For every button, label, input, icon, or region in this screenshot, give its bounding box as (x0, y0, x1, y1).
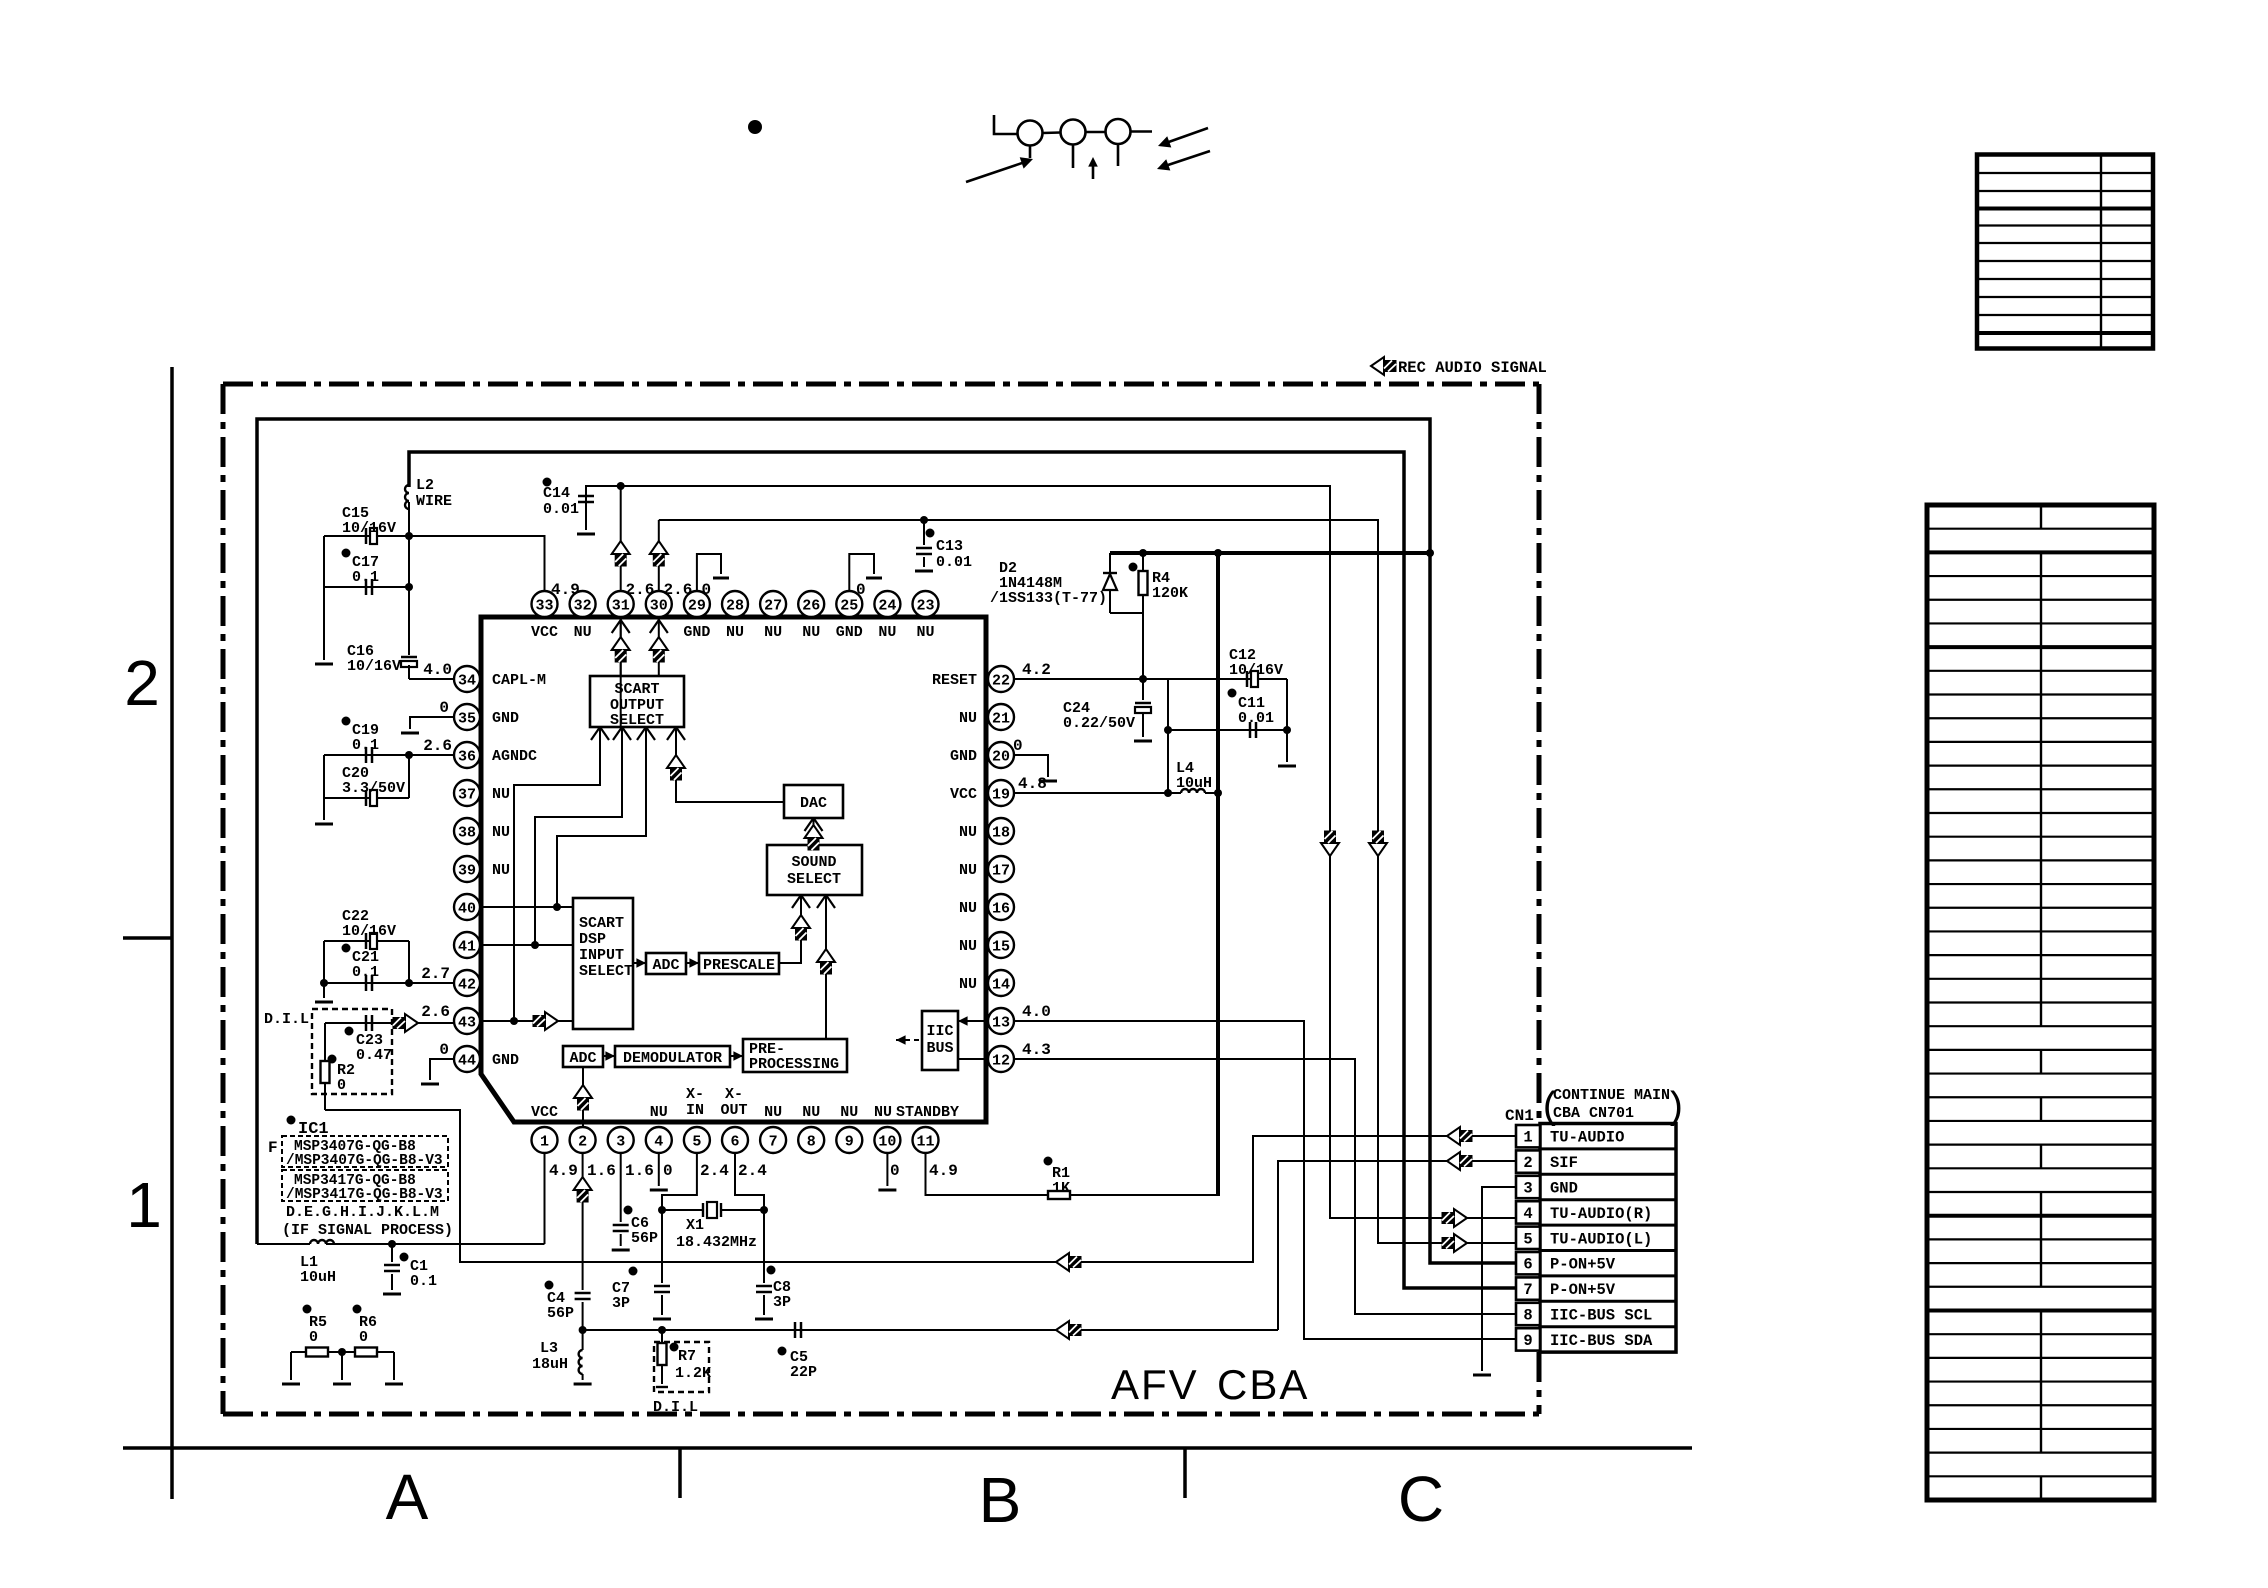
svg-text:43: 43 (458, 1015, 476, 1032)
svg-text:IIC-BUS SDA: IIC-BUS SDA (1550, 1332, 1653, 1350)
svg-text:0.01: 0.01 (543, 501, 579, 518)
svg-text:35: 35 (458, 711, 476, 728)
svg-text:2.6: 2.6 (664, 581, 693, 599)
svg-text:ADC: ADC (652, 957, 679, 974)
svg-text:DSP: DSP (579, 931, 606, 948)
svg-text:BUS: BUS (926, 1040, 953, 1057)
svg-text:F: F (268, 1139, 278, 1157)
svg-text:2.6: 2.6 (421, 1003, 450, 1021)
svg-text:OUT: OUT (720, 1102, 747, 1119)
svg-text:36: 36 (458, 749, 476, 766)
svg-text:9: 9 (1523, 1332, 1532, 1350)
svg-text:24: 24 (878, 598, 896, 615)
svg-text:NU: NU (574, 624, 592, 641)
svg-text:PRESCALE: PRESCALE (703, 957, 775, 974)
svg-text:3.3/50V: 3.3/50V (342, 780, 405, 797)
svg-text:7: 7 (769, 1134, 778, 1151)
svg-text:P-ON+5V: P-ON+5V (1550, 1256, 1616, 1274)
svg-text:1: 1 (540, 1134, 549, 1151)
svg-text:1.2K: 1.2K (675, 1365, 711, 1382)
svg-text:10/16V: 10/16V (1229, 662, 1283, 679)
svg-text:23: 23 (916, 598, 934, 615)
svg-text:38: 38 (458, 825, 476, 842)
svg-text:): ) (1664, 1087, 1687, 1130)
svg-text:56P: 56P (547, 1305, 574, 1322)
svg-text:WIRE: WIRE (416, 493, 452, 510)
svg-text:VCC: VCC (531, 1104, 558, 1121)
svg-text:1: 1 (1523, 1129, 1532, 1147)
svg-text:R7: R7 (678, 1348, 696, 1365)
svg-text:33: 33 (535, 598, 553, 615)
svg-text:CAPL-M: CAPL-M (492, 672, 546, 689)
svg-text:16: 16 (992, 901, 1010, 918)
svg-text:10/16V: 10/16V (347, 658, 401, 675)
svg-text:RESET: RESET (932, 672, 977, 689)
svg-text:SELECT: SELECT (787, 871, 841, 888)
svg-text:12: 12 (992, 1053, 1010, 1070)
svg-text:0: 0 (439, 699, 449, 717)
svg-text:B: B (979, 1464, 1022, 1536)
svg-text:0: 0 (702, 581, 712, 599)
svg-text:4.0: 4.0 (423, 661, 452, 679)
svg-text:15: 15 (992, 939, 1010, 956)
svg-text:/MSP3407G-QG-B8-V3: /MSP3407G-QG-B8-V3 (286, 1153, 443, 1169)
svg-text:10/16V: 10/16V (342, 923, 396, 940)
svg-text:NU: NU (492, 824, 510, 841)
svg-text:X-: X- (686, 1086, 704, 1103)
svg-text:X-: X- (725, 1086, 743, 1103)
svg-text:2: 2 (1523, 1154, 1532, 1172)
svg-text:32: 32 (574, 598, 592, 615)
svg-text:SELECT: SELECT (610, 712, 664, 729)
svg-text:18uH: 18uH (532, 1356, 568, 1373)
svg-text:4: 4 (1523, 1205, 1532, 1223)
svg-text:NU: NU (959, 976, 977, 993)
svg-text:REC AUDIO SIGNAL: REC AUDIO SIGNAL (1398, 359, 1547, 377)
svg-text:C: C (1398, 1463, 1444, 1535)
svg-text:44: 44 (458, 1053, 476, 1070)
svg-text:39: 39 (458, 863, 476, 880)
svg-text:2.7: 2.7 (421, 965, 450, 983)
svg-text:D.E.G.H.I.J.K.L.M: D.E.G.H.I.J.K.L.M (286, 1204, 439, 1221)
svg-text:30: 30 (650, 598, 668, 615)
svg-text:18.432MHz: 18.432MHz (676, 1234, 757, 1251)
svg-text:0: 0 (1013, 737, 1023, 755)
svg-text:0.47: 0.47 (356, 1047, 392, 1064)
svg-text:14: 14 (992, 977, 1010, 994)
svg-text:10uH: 10uH (1176, 775, 1212, 792)
svg-text:NU: NU (726, 624, 744, 641)
svg-text:L2: L2 (416, 477, 434, 494)
svg-text:IN: IN (686, 1102, 704, 1119)
svg-text:120K: 120K (1152, 585, 1188, 602)
svg-text:TU-AUDIO(R): TU-AUDIO(R) (1550, 1205, 1652, 1223)
svg-text:PROCESSING: PROCESSING (749, 1056, 839, 1073)
svg-text:STANDBY: STANDBY (896, 1104, 959, 1121)
svg-text:NU: NU (959, 710, 977, 727)
svg-text:6: 6 (1523, 1256, 1532, 1274)
svg-text:TU-AUDIO: TU-AUDIO (1550, 1129, 1624, 1147)
svg-text:0.1: 0.1 (352, 737, 379, 754)
svg-text:/1SS133(T-77): /1SS133(T-77) (990, 590, 1107, 607)
svg-text:GND: GND (836, 624, 863, 641)
svg-text:(IF SIGNAL PROCESS): (IF SIGNAL PROCESS) (282, 1222, 453, 1239)
svg-text:INPUT: INPUT (579, 947, 624, 964)
svg-text:5: 5 (692, 1134, 701, 1151)
svg-text:29: 29 (688, 598, 706, 615)
svg-text:4.2: 4.2 (1022, 661, 1051, 679)
svg-text:28: 28 (726, 598, 744, 615)
svg-text:NU: NU (802, 1104, 820, 1121)
svg-text:17: 17 (992, 863, 1010, 880)
svg-text:0: 0 (890, 1162, 900, 1180)
svg-text:22: 22 (992, 673, 1010, 690)
svg-text:2.6: 2.6 (626, 581, 655, 599)
svg-text:L3: L3 (540, 1340, 558, 1357)
svg-text:NU: NU (492, 862, 510, 879)
svg-text:NU: NU (874, 1104, 892, 1121)
svg-text:ADC: ADC (569, 1050, 596, 1067)
svg-text:4.0: 4.0 (1022, 1003, 1051, 1021)
svg-text:4: 4 (654, 1134, 663, 1151)
svg-text:VCC: VCC (950, 786, 977, 803)
svg-text:1K: 1K (1052, 1180, 1070, 1197)
svg-text:GND: GND (492, 1052, 519, 1069)
svg-text:0.01: 0.01 (936, 554, 972, 571)
svg-text:0: 0 (856, 581, 866, 599)
svg-text:56P: 56P (631, 1230, 658, 1247)
svg-text:10/16V: 10/16V (342, 520, 396, 537)
svg-text:(: ( (1539, 1087, 1562, 1130)
svg-text:P-ON+5V: P-ON+5V (1550, 1281, 1616, 1299)
svg-text:3: 3 (1523, 1180, 1532, 1198)
svg-text:40: 40 (458, 901, 476, 918)
svg-text:CBA CN701: CBA CN701 (1553, 1105, 1634, 1122)
svg-text:3P: 3P (773, 1294, 791, 1311)
svg-text:0.1: 0.1 (410, 1273, 437, 1290)
svg-text:2.4: 2.4 (738, 1162, 767, 1180)
svg-text:0.22/50V: 0.22/50V (1063, 715, 1135, 732)
svg-text:41: 41 (458, 939, 476, 956)
svg-text:TU-AUDIO(L): TU-AUDIO(L) (1550, 1230, 1652, 1248)
svg-text:0: 0 (359, 1329, 368, 1346)
svg-text:0.1: 0.1 (352, 964, 379, 981)
svg-text:8: 8 (807, 1134, 816, 1151)
svg-text:GND: GND (950, 748, 977, 765)
svg-text:X1: X1 (686, 1217, 704, 1234)
svg-text:0: 0 (337, 1077, 346, 1094)
svg-text:1.6: 1.6 (625, 1162, 654, 1180)
svg-text:VCC: VCC (531, 624, 558, 641)
svg-text:NU: NU (959, 862, 977, 879)
svg-text:GND: GND (683, 624, 710, 641)
svg-text:DEMODULATOR: DEMODULATOR (623, 1050, 722, 1067)
svg-text:42: 42 (458, 977, 476, 994)
svg-text:/MSP3417G-QG-B8-V3: /MSP3417G-QG-B8-V3 (286, 1187, 443, 1203)
svg-text:27: 27 (764, 598, 782, 615)
svg-text:D.I.L: D.I.L (653, 1399, 698, 1416)
svg-text:C13: C13 (936, 538, 963, 555)
svg-text:NU: NU (959, 900, 977, 917)
svg-text:AGNDC: AGNDC (492, 748, 537, 765)
svg-text:8: 8 (1523, 1307, 1532, 1325)
svg-text:22P: 22P (790, 1364, 817, 1381)
svg-text:0.1: 0.1 (352, 569, 379, 586)
svg-text:4.8: 4.8 (1018, 775, 1047, 793)
svg-text:4.9: 4.9 (549, 1162, 578, 1180)
svg-text:NU: NU (650, 1104, 668, 1121)
svg-text:2.6: 2.6 (423, 737, 452, 755)
svg-text:21: 21 (992, 711, 1010, 728)
svg-text:GND: GND (492, 710, 519, 727)
svg-text:4.3: 4.3 (1022, 1041, 1051, 1059)
svg-text:IIC: IIC (926, 1023, 953, 1040)
svg-text:NU: NU (840, 1104, 858, 1121)
svg-text:DAC: DAC (800, 795, 827, 812)
svg-text:19: 19 (992, 787, 1010, 804)
svg-text:31: 31 (612, 598, 630, 615)
svg-text:2: 2 (124, 647, 160, 719)
svg-text:37: 37 (458, 787, 476, 804)
svg-text:NU: NU (802, 624, 820, 641)
svg-text:6: 6 (730, 1134, 739, 1151)
svg-text:NU: NU (959, 938, 977, 955)
svg-text:13: 13 (992, 1015, 1010, 1032)
svg-text:5: 5 (1523, 1230, 1532, 1248)
svg-text:7: 7 (1523, 1281, 1532, 1299)
svg-text:3P: 3P (612, 1295, 630, 1312)
svg-text:GND: GND (1550, 1180, 1578, 1198)
svg-text:NU: NU (764, 624, 782, 641)
svg-text:IIC-BUS SCL: IIC-BUS SCL (1550, 1307, 1652, 1325)
svg-text:0: 0 (439, 1041, 449, 1059)
svg-text:10uH: 10uH (300, 1269, 336, 1286)
svg-text:0.01: 0.01 (1238, 710, 1274, 727)
svg-text:AFV: AFV (1111, 1361, 1199, 1408)
svg-text:10: 10 (878, 1134, 896, 1151)
svg-text:2.4: 2.4 (700, 1162, 729, 1180)
svg-text:C14: C14 (543, 485, 570, 502)
svg-text:0: 0 (663, 1162, 673, 1180)
svg-text:1: 1 (126, 1169, 162, 1241)
svg-text:SCART: SCART (579, 915, 624, 932)
svg-text:26: 26 (802, 598, 820, 615)
svg-text:20: 20 (992, 749, 1010, 766)
svg-text:0: 0 (309, 1329, 318, 1346)
svg-text:NU: NU (878, 624, 896, 641)
svg-text:9: 9 (845, 1134, 854, 1151)
svg-text:SOUND: SOUND (791, 854, 836, 871)
svg-text:CBA: CBA (1217, 1361, 1309, 1408)
svg-text:NU: NU (959, 824, 977, 841)
svg-text:NU: NU (916, 624, 934, 641)
svg-text:CN1: CN1 (1505, 1107, 1534, 1125)
svg-text:4.9: 4.9 (929, 1162, 958, 1180)
svg-text:25: 25 (840, 598, 858, 615)
svg-text:SELECT: SELECT (579, 963, 633, 980)
svg-text:2: 2 (578, 1134, 587, 1151)
svg-text:11: 11 (916, 1134, 934, 1151)
svg-text:4.9: 4.9 (551, 581, 580, 599)
svg-text:NU: NU (764, 1104, 782, 1121)
svg-text:NU: NU (492, 786, 510, 803)
svg-text:1.6: 1.6 (587, 1162, 616, 1180)
svg-text:D.I.L: D.I.L (264, 1011, 309, 1028)
svg-text:34: 34 (458, 673, 476, 690)
svg-text:CONTINUE MAIN: CONTINUE MAIN (1553, 1087, 1670, 1104)
svg-text:3: 3 (616, 1134, 625, 1151)
svg-text:SIF: SIF (1550, 1154, 1578, 1172)
svg-text:A: A (386, 1461, 429, 1533)
svg-text:18: 18 (992, 825, 1010, 842)
